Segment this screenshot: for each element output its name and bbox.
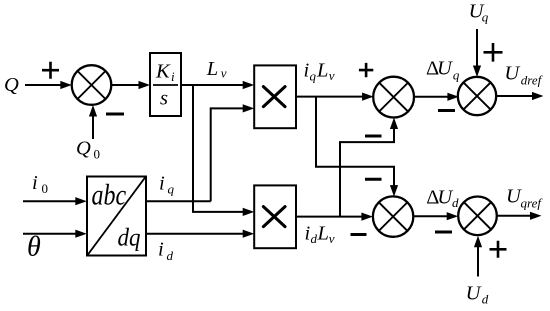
svg-text:dref: dref xyxy=(521,72,544,87)
svg-text:d: d xyxy=(311,231,318,246)
svg-text:L: L xyxy=(317,223,329,245)
svg-text:qref: qref xyxy=(521,195,544,210)
svg-text:q: q xyxy=(310,68,317,83)
svg-text:0: 0 xyxy=(42,181,49,196)
svg-text:Δ: Δ xyxy=(426,58,439,80)
svg-text:i: i xyxy=(171,69,175,84)
svg-text:U: U xyxy=(437,186,453,208)
svg-text:U: U xyxy=(437,58,453,80)
svg-text:q: q xyxy=(168,182,175,197)
svg-text:q: q xyxy=(453,67,460,82)
svg-text:L: L xyxy=(316,59,328,81)
svg-text:Q: Q xyxy=(4,74,19,96)
svg-text:abc: abc xyxy=(92,178,127,211)
svg-text:i: i xyxy=(159,172,165,194)
svg-text:v: v xyxy=(329,68,335,83)
svg-text:v: v xyxy=(221,65,227,80)
svg-text:v: v xyxy=(329,231,335,246)
svg-text:i: i xyxy=(158,238,164,260)
svg-text:θ: θ xyxy=(27,231,41,262)
svg-text:L: L xyxy=(206,58,218,80)
svg-text:K: K xyxy=(155,60,171,82)
svg-text:Q: Q xyxy=(76,138,91,160)
svg-text:0: 0 xyxy=(94,147,101,162)
svg-text:d: d xyxy=(482,292,489,307)
svg-text:s: s xyxy=(160,87,168,109)
svg-text:q: q xyxy=(482,10,489,25)
svg-text:Δ: Δ xyxy=(426,186,439,208)
svg-text:d: d xyxy=(167,248,174,263)
svg-text:dq: dq xyxy=(118,225,141,252)
svg-text:i: i xyxy=(32,172,38,194)
svg-text:d: d xyxy=(452,195,459,210)
svg-text:U: U xyxy=(504,63,520,85)
svg-text:U: U xyxy=(466,283,482,305)
